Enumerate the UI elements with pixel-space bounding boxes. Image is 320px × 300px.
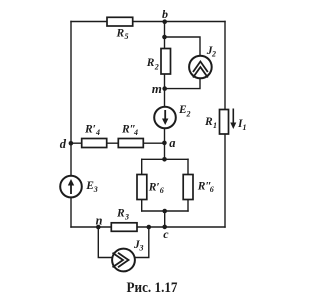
svg-text:R: R bbox=[116, 208, 125, 220]
resistor R''6 bbox=[183, 175, 193, 200]
EMF source E2 bbox=[154, 107, 176, 129]
svg-text:3: 3 bbox=[124, 212, 129, 221]
wire R''6 riser top bbox=[187, 159, 189, 174]
wire a to split bar bbox=[164, 143, 166, 159]
label R'4 bbox=[84, 124, 100, 138]
node b bbox=[162, 19, 167, 24]
wire R'6 riser top bbox=[141, 159, 143, 174]
svg-text:6: 6 bbox=[210, 185, 214, 194]
resistor R3 bbox=[111, 223, 137, 232]
label E3 bbox=[85, 180, 98, 194]
svg-text:4: 4 bbox=[133, 128, 138, 137]
svg-text:R: R bbox=[116, 28, 125, 40]
resistor R5 bbox=[107, 17, 133, 26]
svg-text:3: 3 bbox=[139, 243, 144, 252]
resistor R''4 bbox=[118, 139, 143, 148]
wire b down to m bbox=[164, 22, 166, 89]
node split bbox=[162, 157, 167, 162]
wire top (b to corners) bbox=[71, 21, 225, 23]
resistor R2 bbox=[161, 49, 171, 75]
current source J3 bbox=[112, 249, 135, 272]
node junction b branch bbox=[162, 35, 167, 40]
wire split bar bbox=[142, 158, 188, 160]
svg-text:R′: R′ bbox=[148, 182, 160, 194]
resistor R1 bbox=[220, 110, 229, 135]
resistor R'4 bbox=[82, 139, 107, 148]
svg-text:Рис. 1.17: Рис. 1.17 bbox=[127, 280, 178, 296]
svg-text:1: 1 bbox=[243, 123, 247, 132]
label R5 bbox=[116, 28, 129, 41]
svg-text:b: b bbox=[162, 7, 168, 21]
node d bbox=[69, 141, 74, 146]
svg-text:R′: R′ bbox=[84, 124, 96, 136]
resistor R'6 bbox=[137, 175, 147, 200]
label R''6 bbox=[197, 181, 214, 195]
svg-text:n: n bbox=[96, 213, 103, 227]
svg-text:1: 1 bbox=[213, 121, 217, 130]
label J2 bbox=[206, 45, 216, 59]
label R'6 bbox=[148, 182, 164, 196]
node c bbox=[162, 225, 167, 230]
label R3 bbox=[116, 208, 129, 222]
label E2 bbox=[178, 104, 191, 119]
svg-text:d: d bbox=[60, 137, 67, 151]
wire branch to J2 bbox=[165, 37, 201, 57]
svg-text:4: 4 bbox=[95, 128, 100, 137]
wire right bbox=[224, 22, 226, 228]
node m bbox=[162, 86, 167, 91]
svg-text:R: R bbox=[204, 116, 213, 128]
wire m to a bbox=[164, 89, 166, 143]
wire bottom bbox=[71, 226, 225, 228]
label R1 bbox=[204, 116, 217, 130]
EMF source E3 bbox=[60, 176, 82, 198]
node n bbox=[96, 225, 101, 230]
svg-text:m: m bbox=[152, 81, 162, 96]
wire join bar bbox=[142, 210, 188, 212]
svg-text:R: R bbox=[146, 57, 155, 69]
wire join to c bbox=[164, 211, 166, 227]
svg-text:a: a bbox=[169, 136, 175, 150]
wire n down J3 loop left bbox=[98, 227, 112, 258]
wire R''6 riser bottom bbox=[187, 199, 189, 211]
current source J2 bbox=[189, 56, 212, 79]
label I1 bbox=[237, 118, 247, 132]
svg-text:2: 2 bbox=[186, 110, 191, 119]
svg-text:5: 5 bbox=[125, 32, 129, 41]
svg-text:2: 2 bbox=[154, 63, 159, 72]
svg-text:2: 2 bbox=[211, 49, 216, 58]
svg-text:6: 6 bbox=[160, 186, 164, 195]
label R''4 bbox=[121, 124, 138, 138]
wire R'6 riser bottom bbox=[141, 199, 143, 211]
label R2 bbox=[146, 57, 159, 71]
node J3 right bbox=[147, 225, 152, 230]
label J3 bbox=[133, 239, 144, 253]
svg-text:c: c bbox=[163, 227, 169, 241]
wire J2 to m bbox=[165, 78, 201, 89]
node a bbox=[162, 141, 167, 146]
wire left bbox=[70, 22, 72, 228]
wire J3 loop right bbox=[135, 227, 149, 258]
node join bbox=[162, 209, 167, 214]
svg-text:3: 3 bbox=[93, 185, 98, 194]
wire d to a bbox=[71, 142, 165, 144]
current arrow I1 bbox=[230, 109, 236, 130]
